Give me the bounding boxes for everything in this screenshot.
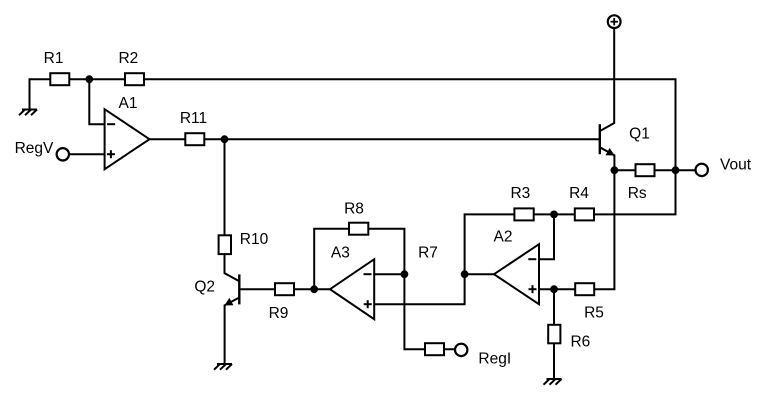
svg-text:R11: R11 [180, 110, 207, 127]
resistor R11 [185, 133, 204, 145]
node Q1 emitter junction [611, 166, 619, 174]
wire Q2 base to A3 output [239, 288, 330, 290]
svg-text:R1: R1 [44, 50, 64, 67]
svg-text:A2: A2 [494, 228, 513, 245]
node Vout junction [672, 166, 680, 174]
wire A3 minus input to node [374, 273, 404, 275]
wire RegV to A1 plus input [69, 153, 105, 155]
resistor R2 [125, 73, 144, 85]
terminal RegI [455, 344, 467, 356]
resistor R9 [275, 283, 294, 295]
transistor Q1 base bar [599, 124, 601, 154]
terminal Vout [696, 164, 708, 176]
svg-text:A1: A1 [119, 95, 138, 112]
A3 minus pin mark [364, 273, 372, 275]
svg-text:Vout: Vout [720, 156, 752, 173]
wire A2 output [465, 273, 494, 275]
resistor R5 [575, 283, 594, 295]
Q2 emitter arrow [224, 298, 233, 306]
svg-text:R7: R7 [418, 244, 438, 261]
wire R6 branch down to ground [553, 289, 555, 379]
node A1 inverting input junction [85, 75, 93, 83]
svg-text:Q2: Q2 [194, 279, 215, 296]
node A3 output junction [310, 285, 318, 293]
wire A3 feedback loop through R8 [314, 229, 455, 350]
svg-text:R6: R6 [570, 333, 590, 350]
resistor Rs [636, 164, 655, 176]
wire power feed down to Q1 collector [600, 28, 614, 131]
op-amp A1 [105, 109, 150, 169]
resistor R10 [219, 235, 231, 254]
transistor Q2 base bar [238, 274, 240, 304]
A2 plus pin mark [529, 285, 537, 293]
ground [19, 110, 37, 116]
wire A2 plus row through R5 [539, 288, 615, 290]
svg-text:Q1: Q1 [629, 126, 650, 143]
svg-text:R2: R2 [118, 50, 138, 67]
svg-text:Rs: Rs [628, 185, 647, 202]
wire A2 minus feed [539, 214, 554, 259]
node A2 output junction [461, 270, 469, 278]
svg-text:R4: R4 [569, 185, 589, 202]
resistor R3 [514, 208, 533, 220]
A2 minus pin mark [528, 258, 536, 260]
wire R11 node down through R10 to Q2 collector [225, 139, 240, 281]
svg-text:R3: R3 [510, 185, 530, 202]
Q1 emitter arrow [606, 148, 615, 156]
wire top rail from ground stub through R1,R2, right column, R4 row, A3 plus feed [30, 79, 676, 304]
resistor R1 [50, 73, 69, 85]
wire Vout stub [676, 169, 696, 171]
A3 plus pin mark [364, 300, 372, 308]
A1 plus pin mark [107, 150, 115, 158]
wire A1 output to Q1 base [150, 138, 600, 140]
ground under Q2 [214, 364, 232, 370]
svg-text:RegI: RegI [478, 351, 511, 368]
node A3 minus junction [401, 270, 409, 278]
terminal RegV [57, 148, 69, 160]
wire inverting input feed from node to A1 [89, 79, 104, 124]
wire Q1 emitter column down to R5 [600, 147, 615, 289]
svg-text:RegV: RegV [15, 140, 54, 157]
svg-text:A3: A3 [331, 245, 350, 262]
svg-text:R9: R9 [269, 305, 289, 322]
svg-text:R8: R8 [344, 200, 364, 217]
resistor R6 [548, 325, 560, 344]
resistor on RegI input [425, 343, 444, 355]
node R11 output junction [221, 135, 229, 143]
node A2 plus junction [550, 285, 558, 293]
svg-text:R5: R5 [584, 304, 604, 321]
wire emitter node through Rs to Vout column [614, 169, 675, 171]
svg-text:R10: R10 [240, 231, 269, 248]
ground under R6 [544, 379, 562, 385]
A1 minus pin mark [107, 123, 115, 125]
op-amp A2 [494, 244, 539, 304]
node R3-R4 junction [550, 211, 558, 219]
power supply positive terminal [608, 15, 621, 28]
resistor R4 [575, 208, 594, 220]
op-amp A3 [330, 259, 374, 319]
resistor R8 [349, 223, 368, 235]
wire Q2 emitter down to ground [225, 298, 240, 364]
